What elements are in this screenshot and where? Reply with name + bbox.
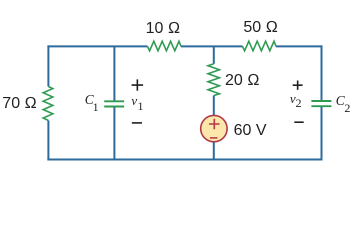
voltage source plus sign	[209, 119, 220, 129]
voltage source minus sign	[210, 137, 218, 139]
resistor R2 50ohm zigzag	[243, 41, 277, 51]
wire middle branch upper	[213, 46, 215, 63]
label C2 subscript	[344, 102, 350, 115]
node v2 minus sign	[294, 121, 303, 123]
label 70 ohm	[2, 95, 37, 113]
wire top rail left segment	[47, 45, 147, 47]
label C1 subscript	[93, 101, 99, 114]
node v2 plus sign	[293, 81, 303, 90]
label 20 ohm	[225, 72, 260, 90]
resistor R3 70ohm zigzag	[43, 87, 53, 121]
wire middle branch lower	[213, 142, 215, 160]
wire left edge upper	[47, 45, 49, 86]
wire top rail middle segment	[181, 45, 243, 47]
label 60 V	[234, 122, 267, 140]
wire C1 branch upper	[113, 46, 115, 100]
label v2 subscript	[296, 97, 302, 110]
label 10 ohm	[146, 20, 181, 38]
wire C1 branch lower	[113, 107, 115, 159]
label C1 letter	[85, 93, 94, 107]
label v2 letter	[290, 92, 296, 106]
capacitor C2 plates	[311, 101, 331, 106]
wire bottom rail	[47, 159, 322, 161]
node v1 plus sign	[132, 79, 144, 90]
label v1 subscript	[138, 100, 144, 113]
label 50 ohm	[243, 19, 278, 37]
voltage source VS 60V circle	[201, 115, 227, 141]
wire middle branch mid	[213, 96, 215, 116]
wire right edge upper	[321, 45, 323, 100]
wire left edge lower	[47, 121, 49, 161]
wire right edge lower	[321, 107, 323, 160]
label C2 letter	[336, 94, 345, 108]
resistor R4 20ohm zigzag	[208, 64, 219, 96]
capacitor C1 plates	[104, 101, 124, 106]
resistor R1 10ohm zigzag	[148, 41, 182, 51]
label v1 letter	[131, 94, 137, 108]
node v1 minus sign	[132, 122, 142, 124]
wire top rail right segment	[276, 45, 323, 47]
